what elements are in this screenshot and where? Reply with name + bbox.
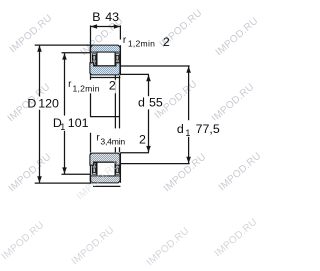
svg-text:77,5: 77,5 bbox=[196, 122, 220, 136]
cage pocket left (upper) bbox=[92, 54, 96, 65]
arrow d bottom bbox=[146, 146, 151, 152]
bearing cross-section lower half (mirror) bbox=[90, 153, 121, 183]
cage pocket right (lower) bbox=[116, 163, 120, 174]
dimension d1 extension line top bbox=[120, 65, 189, 67]
projection line to lower flange edge bbox=[114, 146, 116, 152]
dimension D extension line bottom bbox=[35, 182, 92, 184]
dimension B extension line left bbox=[90, 25, 92, 44]
outer ring left face edge (upper) bbox=[90, 45, 92, 75]
projection line to lower right face bbox=[119, 146, 121, 152]
cage pocket right (upper) bbox=[116, 54, 120, 65]
svg-text:2: 2 bbox=[163, 35, 170, 49]
dimension d line bbox=[148, 75, 150, 153]
svg-text:2: 2 bbox=[139, 132, 146, 146]
projection corner line bbox=[90, 116, 120, 118]
dimension D extension line top bbox=[35, 44, 92, 46]
outer ring left face edge (lower) bbox=[90, 153, 92, 183]
cage bar right (lower) bbox=[116, 168, 119, 173]
arrow B left bbox=[91, 24, 98, 29]
svg-text:d: d bbox=[177, 122, 184, 136]
arrow d1 bottom bbox=[186, 157, 191, 163]
arrow D1 top bbox=[62, 53, 67, 59]
svg-text:55: 55 bbox=[149, 96, 163, 110]
svg-text:101: 101 bbox=[68, 116, 89, 130]
label background boxes bbox=[38, 80, 219, 147]
arrow d top bbox=[146, 75, 151, 81]
dimension d1 extension line bottom bbox=[120, 163, 189, 165]
cage bar right (upper) bbox=[116, 56, 119, 61]
dimension d1 line bbox=[188, 66, 190, 163]
cage rivet left (lower) bbox=[93, 164, 95, 166]
arrow D bottom bbox=[37, 176, 42, 182]
arrow D1 bottom bbox=[62, 167, 67, 173]
cage bar left (upper) bbox=[93, 56, 96, 61]
cage rivet right (upper) bbox=[116, 62, 118, 64]
projection line from upper flange edge bbox=[114, 75, 116, 128]
dimension D1 line bbox=[64, 53, 66, 174]
dimension B extension line right bbox=[119, 25, 121, 39]
cage rivet right (lower) bbox=[116, 164, 118, 166]
loose flange ring line under upper inner ring bbox=[90, 77, 120, 79]
outer ring band (upper) bbox=[90, 45, 120, 52]
svg-text:1,2min: 1,2min bbox=[73, 84, 100, 94]
svg-text:d: d bbox=[138, 96, 145, 110]
projection line from upper left face bbox=[90, 75, 92, 116]
outer ring right face edge (lower) bbox=[119, 153, 121, 183]
dimension B line bbox=[91, 26, 121, 28]
projection line from upper right face bbox=[119, 75, 121, 128]
cage rivet left (upper) bbox=[93, 62, 95, 64]
svg-text:2: 2 bbox=[109, 78, 116, 92]
outer ring right face edge (upper) bbox=[119, 45, 121, 75]
svg-text:1: 1 bbox=[185, 128, 190, 138]
svg-text:1: 1 bbox=[60, 122, 65, 132]
svg-text:43: 43 bbox=[105, 10, 119, 24]
cage bar left (lower) bbox=[93, 168, 96, 173]
dimension d extension line top bbox=[120, 73, 149, 75]
arrow B right bbox=[114, 24, 121, 29]
dimension D1 extension line bottom bbox=[62, 173, 91, 175]
cage pocket left (lower) bbox=[92, 163, 96, 174]
svg-text:1,2min: 1,2min bbox=[128, 39, 155, 49]
svg-text:D: D bbox=[27, 96, 36, 110]
inner ring with flanges (lower) bbox=[90, 153, 120, 165]
dimension D line bbox=[39, 45, 41, 183]
projection line to lower left face bbox=[90, 133, 92, 153]
roller (upper) bbox=[97, 52, 115, 66]
outer ring band (lower) bbox=[90, 176, 120, 183]
dimension d extension line bottom bbox=[120, 152, 149, 154]
svg-text:B: B bbox=[92, 10, 100, 24]
inner ring with flanges (upper) bbox=[90, 63, 120, 75]
roller (lower) bbox=[97, 162, 115, 176]
svg-text:120: 120 bbox=[38, 96, 59, 110]
bearing cross-section upper half (NUP cylindrical roller bearing) bbox=[90, 45, 121, 77]
watermark IMPOD.RU tiled background bbox=[0, 8, 264, 269]
arrow D top bbox=[37, 45, 42, 51]
loose flange ring line under lower outer ring bbox=[93, 185, 120, 187]
svg-text:3,4min: 3,4min bbox=[100, 137, 125, 147]
arrow d1 top bbox=[186, 66, 191, 72]
dimension D1 extension line top bbox=[62, 52, 91, 54]
